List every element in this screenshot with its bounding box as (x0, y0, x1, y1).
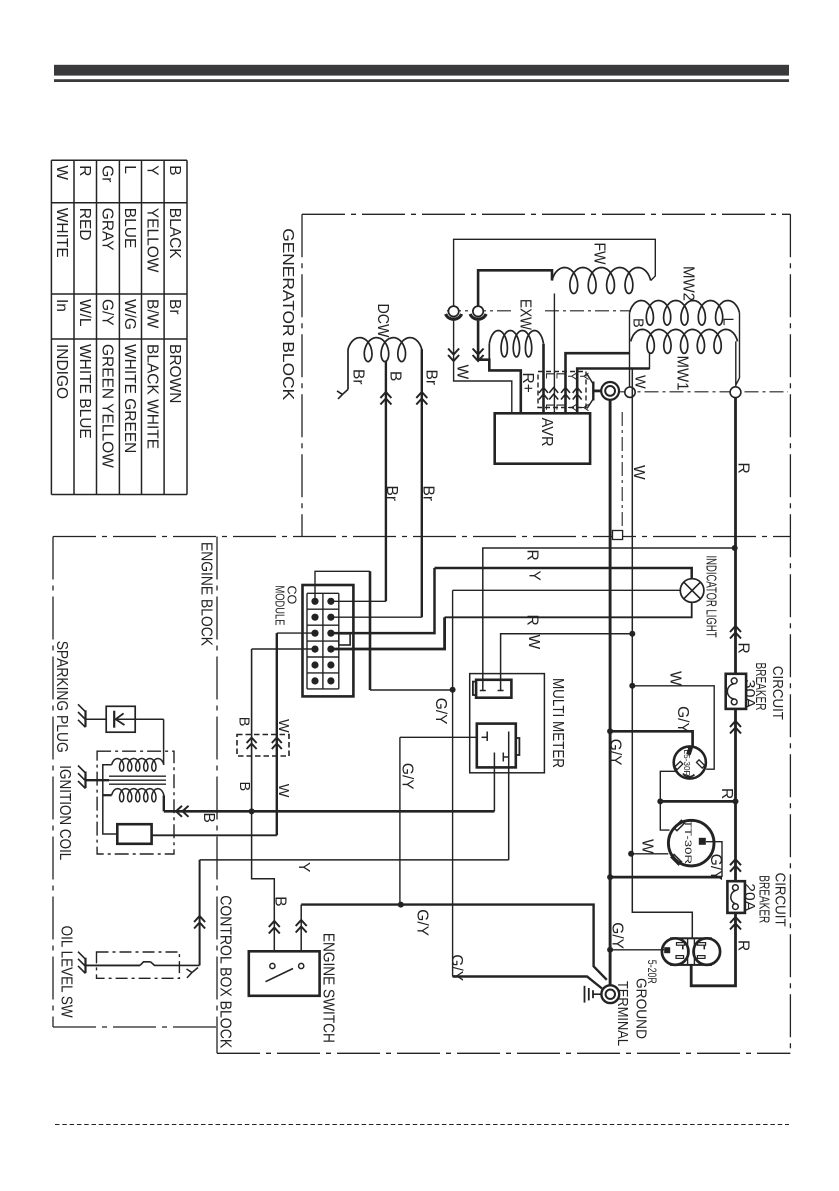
B branch to engine switch (252, 811, 275, 951)
svg-text:R: R (76, 165, 93, 176)
svg-text:W: W (275, 784, 291, 798)
svg-text:IGNITION COIL: IGNITION COIL (56, 765, 73, 860)
svg-text:G/Y: G/Y (607, 739, 624, 766)
svg-text:W: W (630, 465, 647, 480)
svg-text:G/Y: G/Y (609, 922, 626, 949)
svg-text:G/Y: G/Y (414, 909, 431, 936)
header rule thick (54, 65, 789, 76)
svg-text:Br: Br (166, 299, 183, 315)
svg-text:WHITE BLUE: WHITE BLUE (76, 344, 93, 439)
svg-text:G/Y: G/Y (448, 954, 465, 981)
primary left bus (103, 765, 118, 834)
MW2 B lead to rotor node (629, 313, 631, 387)
svg-text:R: R (718, 788, 735, 799)
rotor earth double circle (601, 382, 619, 400)
B wire from secondary (163, 795, 165, 811)
svg-text:MODULE: MODULE (273, 586, 287, 626)
brush 2 slip ring (473, 306, 483, 316)
indicator light lamp (680, 579, 704, 603)
wire FW left to brush 2 (478, 270, 552, 306)
svg-text:CONTROL BOX BLOCK: CONTROL BOX BLOCK (217, 895, 234, 1048)
svg-text:Br: Br (383, 486, 400, 502)
svg-text:RED: RED (76, 208, 93, 241)
svg-text:G/Y: G/Y (99, 299, 116, 326)
engine connector dashed box (237, 735, 289, 757)
rotor shaft dash-dot axis (620, 391, 789, 393)
svg-text:INDIGO: INDIGO (53, 344, 70, 399)
svg-text:W/L: W/L (76, 299, 93, 327)
DCW black centre tap wire (385, 361, 387, 602)
svg-text:GROUND: GROUND (632, 978, 649, 1039)
svg-text:B: B (630, 318, 646, 328)
brush 1 slip ring (448, 306, 458, 316)
svg-text:G/Y: G/Y (707, 854, 724, 881)
svg-text:Br: Br (420, 486, 437, 502)
engine switch (249, 951, 320, 996)
svg-text:MULTI METER: MULTI METER (549, 678, 566, 768)
5-20R slots (677, 943, 685, 946)
MW1 W lead (632, 352, 649, 369)
G/Y junction (450, 687, 456, 693)
svg-text:DCW: DCW (374, 304, 391, 339)
EXW right lead to AVR pin (542, 344, 545, 414)
svg-text:CIRCUIT: CIRCUIT (772, 873, 789, 927)
G/Y wire to L5-30R (607, 728, 613, 734)
rotor node 2 (730, 387, 741, 398)
W wire down page (632, 369, 692, 939)
svg-text:BLACK WHITE: BLACK WHITE (143, 344, 160, 449)
indicator light wires (435, 568, 692, 579)
svg-text:OIL LEVEL SW: OIL LEVEL SW (58, 926, 75, 1019)
W wire from multimeter (501, 634, 633, 687)
engine block border (52, 537, 54, 1028)
AVR pin Y wire to MW1 (577, 369, 649, 414)
L5-30R receptacle (674, 746, 706, 778)
FW left bottom stub to AVR pin (553, 294, 555, 414)
DCW brown lead with break (347, 349, 349, 389)
AVR pin Y wire to rotor node (566, 353, 630, 413)
svg-text:Y: Y (295, 862, 312, 872)
B wire to multimeter (493, 762, 495, 812)
svg-text:W: W (53, 165, 70, 180)
svg-text:R: R (735, 463, 752, 474)
AVR connector dashed box (538, 372, 586, 408)
rotor axis dash-dot through slip rings (447, 310, 512, 312)
svg-text:W/G: W/G (121, 299, 138, 330)
svg-text:L: L (121, 165, 138, 174)
svg-text:ENGINE SWITCH: ENGINE SWITCH (320, 933, 337, 1043)
wire CO pin4L B (252, 648, 315, 650)
oil level switch (97, 952, 180, 978)
svg-text:G/Y: G/Y (674, 706, 691, 733)
multimeter 2-pin connector (476, 680, 511, 698)
CO module (303, 585, 354, 696)
engine switch G/Y wire (300, 905, 302, 952)
svg-text:INDICATOR LIGHT: INDICATOR LIGHT (703, 556, 720, 638)
svg-text:BLUE: BLUE (121, 208, 138, 248)
svg-text:L: L (720, 318, 736, 326)
svg-text:WHITE GREEN: WHITE GREEN (121, 344, 138, 453)
svg-text:YELLOW: YELLOW (143, 208, 160, 273)
brush 2 R+ wire to AVR (478, 321, 521, 414)
svg-text:ENGINE BLOCK: ENGINE BLOCK (198, 542, 215, 646)
secondary left stub (103, 794, 112, 796)
svg-text:Br: Br (350, 369, 367, 385)
svg-text:Gr: Gr (99, 165, 116, 182)
5-20R G/Y wire (610, 949, 664, 951)
DCW winding (348, 338, 422, 362)
svg-text:CIRCUIT: CIRCUIT (769, 666, 786, 720)
svg-text:MW1: MW1 (674, 356, 691, 391)
footer dashed rule (55, 1124, 789, 1126)
svg-text:Y: Y (526, 571, 543, 581)
wire CO pin3R Y (331, 568, 435, 633)
5-20R duplex receptacle (671, 938, 711, 965)
svg-text:GREEN YELLOW: GREEN YELLOW (99, 344, 116, 468)
MW2 L / MW1 R leads to node 2 (739, 313, 741, 378)
svg-text:TT-30R: TT-30R (682, 820, 693, 864)
DCW brown right lead wire (421, 349, 423, 617)
svg-text:B: B (166, 165, 183, 175)
diode box (86, 718, 107, 720)
legend table (50, 160, 52, 494)
svg-text:MW2: MW2 (680, 266, 697, 301)
R wire from multimeter (483, 548, 735, 687)
svg-text:B: B (236, 782, 252, 792)
ignition coil block (97, 751, 174, 854)
generator block border (302, 213, 790, 215)
R junction to receptacles (733, 798, 739, 804)
TT-30R W wire (631, 853, 668, 855)
svg-text:R: R (735, 940, 752, 951)
circuit breaker 30A (726, 674, 746, 709)
svg-text:W: W (525, 635, 542, 650)
AVR box (495, 413, 590, 463)
svg-text:W: W (667, 671, 684, 686)
svg-text:WHITE: WHITE (53, 208, 70, 258)
wire to TT-30R top (660, 801, 669, 830)
svg-text:SPARKING PLUG: SPARKING PLUG (53, 641, 70, 753)
wire CO pin2R to DCW Br (331, 616, 422, 618)
svg-text:GENERATOR BLOCK: GENERATOR BLOCK (279, 228, 296, 400)
Y wire oil switch to multimeter (200, 859, 509, 861)
svg-text:Y: Y (143, 165, 160, 175)
svg-text:G/Y: G/Y (399, 763, 416, 790)
svg-text:W: W (632, 375, 648, 389)
wire FW right to brush 1 (454, 239, 656, 306)
svg-text:B: B (236, 717, 252, 727)
G/Y wire from multimeter (400, 736, 484, 738)
FW field winding (552, 268, 651, 294)
wire CO pin1R to DCW B (331, 600, 386, 602)
svg-text:L5-30R: L5-30R (682, 750, 692, 777)
svg-text:GRAY: GRAY (99, 208, 116, 251)
svg-text:G/Y: G/Y (432, 698, 449, 725)
R main wire (734, 398, 737, 674)
svg-text:BLACK: BLACK (166, 208, 183, 259)
svg-text:Br: Br (423, 370, 440, 386)
svg-text:B: B (200, 813, 217, 823)
svg-text:FW: FW (591, 243, 608, 266)
MW1 main winding (631, 329, 738, 353)
wire CO pin4R R (331, 617, 445, 649)
svg-text:R: R (524, 615, 541, 626)
rotor node 1 (625, 387, 635, 397)
shaft grommet on border (613, 531, 623, 540)
L5-30R left terminal wire (660, 771, 677, 801)
wire CO pin1L G/Y (315, 571, 370, 601)
G/Y lower run to earth (453, 977, 602, 989)
multi meter block (470, 674, 545, 773)
TT-30R G/Y wire (706, 842, 722, 877)
TT-30R receptacle (668, 820, 714, 866)
brush 1 W wire to AVR (454, 321, 512, 414)
receptacle R bus (660, 800, 735, 803)
main earth wire (609, 400, 612, 986)
W wire to L5-30R (629, 683, 635, 689)
sparking plug gap symbol 1 (84, 710, 86, 727)
svg-text:EXW: EXW (517, 299, 534, 331)
ground terminal (601, 985, 619, 1003)
ignition primary coil (112, 759, 164, 772)
ignition secondary coil (112, 789, 164, 802)
multimeter 4-pin connector (477, 724, 516, 768)
G/Y rail (301, 905, 607, 980)
iron core (109, 775, 166, 777)
chassis ground symbol at rotor (594, 389, 602, 392)
svg-text:B: B (387, 371, 404, 381)
header rule thin (54, 79, 789, 82)
svg-text:B/W: B/W (143, 299, 160, 329)
EXW exciter winding (489, 331, 543, 357)
svg-text:R: R (524, 550, 541, 561)
svg-text:In: In (53, 299, 70, 312)
svg-text:W: W (639, 839, 656, 854)
MW2 main winding (630, 301, 740, 326)
oil switch break fork (192, 968, 198, 973)
wire CO pin3L W (277, 632, 315, 634)
svg-text:R: R (735, 643, 752, 654)
svg-text:BREAKER: BREAKER (756, 875, 773, 923)
svg-text:TERMINAL: TERMINAL (614, 981, 631, 1046)
svg-text:20A: 20A (741, 883, 758, 911)
svg-text:B: B (272, 896, 289, 906)
condenser box (117, 824, 151, 844)
Y wire to multimeter (508, 741, 510, 860)
svg-text:BROWN: BROWN (166, 344, 183, 403)
W wire to condenser (152, 834, 277, 836)
svg-text:BREAKER: BREAKER (752, 663, 769, 711)
sparking plug 2 (84, 772, 86, 789)
svg-text:R+: R+ (519, 373, 536, 393)
circuit breaker 20A (727, 881, 745, 913)
svg-text:AVR: AVR (538, 418, 555, 447)
svg-text:W: W (275, 719, 291, 733)
svg-text:W: W (454, 365, 471, 380)
